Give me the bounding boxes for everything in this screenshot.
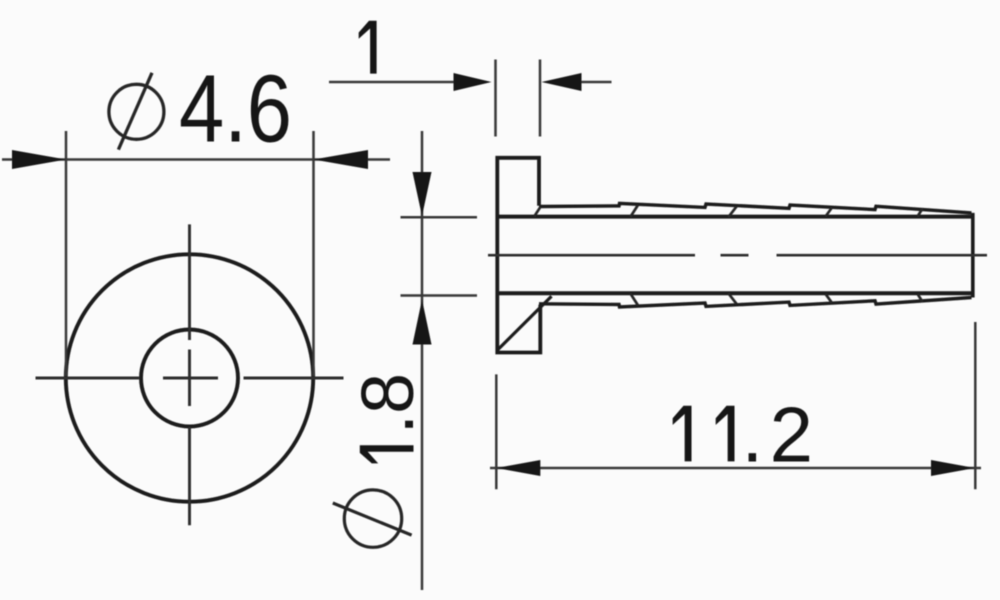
- dimension Ø4.6 diameter symbol: [109, 73, 164, 150]
- dimension Ø4.6 extension line left: [65, 131, 68, 376]
- dimension 1 value text: [359, 21, 377, 74]
- dimension Ø1.8 top extension line: [401, 216, 478, 219]
- dimension Ø1.8 top arrowhead (pointing down): [413, 172, 432, 216]
- dimension 1 extension line left: [494, 60, 497, 137]
- dimension Ø4.6 right arrowhead: [314, 150, 369, 169]
- svg-text:.2: .2: [742, 390, 814, 478]
- dimension Ø1.8 vertical dimension line: [421, 131, 424, 590]
- side view top root line: [497, 215, 972, 219]
- dimension 1 right arrowhead: [542, 73, 582, 91]
- side view top barb ticks: [534, 205, 922, 217]
- dimension 1 left arrowhead: [454, 73, 492, 91]
- dimension 11.2 left arrowhead (pointing left): [496, 460, 540, 476]
- dimension 11.2 right arrowhead (pointing right): [931, 460, 975, 476]
- dimension 1 dimension line right part: [582, 81, 612, 84]
- dimension Ø4.6 dimension line: [2, 158, 390, 161]
- side view bottom barb profile: [539, 298, 972, 308]
- dimension Ø4.6 extension line right: [312, 131, 315, 376]
- dimension 11.2 extension line right: [974, 322, 977, 489]
- svg-text:.8: .8: [346, 373, 429, 435]
- dimension Ø1.8 bottom arrowhead (pointing up): [413, 300, 432, 345]
- side view bottom barb ticks: [630, 293, 922, 305]
- dimension 1 (flange width) dimension line left part: [329, 81, 455, 84]
- dimension 11.2 extension line left: [495, 374, 498, 489]
- dimension 11.2 value text: [673, 406, 692, 462]
- dimension Ø1.8 diameter symbol: [333, 490, 412, 547]
- front view outer circle: [66, 254, 313, 501]
- dimension Ø1.8 bottom extension line: [401, 294, 478, 297]
- dimension 11.2 dimension line: [490, 467, 981, 470]
- side view top barb profile: [539, 203, 972, 213]
- front view horizontal centerline: [36, 377, 344, 380]
- front view inner circle (bore): [141, 330, 238, 427]
- svg-text:4.6: 4.6: [179, 56, 292, 163]
- side view tip edge: [971, 213, 975, 298]
- side view flange outline: [497, 158, 540, 353]
- dimension Ø1.8 value text (rotated): [360, 445, 414, 463]
- dimension Ø4.6 left arrowhead: [12, 150, 66, 169]
- front view vertical centerline: [188, 224, 191, 525]
- side view flange diagonal line: [498, 296, 552, 349]
- side view centerline: [488, 254, 987, 257]
- side view bottom root line: [497, 291, 972, 295]
- dimension 1 extension line right: [539, 60, 542, 137]
